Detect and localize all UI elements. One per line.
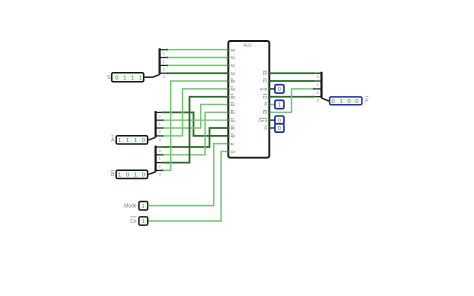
svg-text:2: 2 <box>317 91 319 95</box>
svg-text:0: 0 <box>163 52 165 56</box>
svg-text:S3: S3 <box>231 72 236 76</box>
svg-text:1: 1 <box>126 138 129 144</box>
svg-text:B2: B2 <box>231 95 236 99</box>
svg-text:2: 2 <box>159 165 161 169</box>
svg-text:0: 0 <box>278 126 281 132</box>
svg-text:A=B: A=B <box>260 88 268 92</box>
svg-text:S0: S0 <box>231 48 236 52</box>
svg-text:F: F <box>365 99 368 105</box>
svg-text:1: 1 <box>278 103 281 109</box>
svg-text:1: 1 <box>139 75 142 81</box>
svg-text:2: 2 <box>163 67 165 71</box>
svg-text:1: 1 <box>134 172 137 178</box>
svg-text:1: 1 <box>118 138 121 144</box>
svg-text:B0: B0 <box>231 127 236 131</box>
svg-text:A1: A1 <box>231 119 236 123</box>
svg-text:G: G <box>264 127 267 131</box>
svg-text:1: 1 <box>339 99 342 105</box>
svg-text:Mode: Mode <box>124 204 137 210</box>
svg-text:1: 1 <box>142 219 145 225</box>
svg-text:3: 3 <box>163 75 165 79</box>
svg-text:1: 1 <box>317 83 319 87</box>
svg-text:3: 3 <box>159 138 161 142</box>
svg-text:0: 0 <box>278 87 281 93</box>
svg-text:0: 0 <box>159 149 161 153</box>
svg-text:3: 3 <box>159 172 161 176</box>
svg-text:F0: F0 <box>263 72 267 76</box>
svg-text:F1: F1 <box>263 80 267 84</box>
svg-text:1: 1 <box>131 75 134 81</box>
svg-text:Cn+4: Cn+4 <box>258 119 267 123</box>
svg-text:S1: S1 <box>231 56 236 60</box>
svg-text:A2: A2 <box>231 103 236 107</box>
svg-text:Cn: Cn <box>231 150 236 154</box>
svg-text:B1: B1 <box>231 111 236 115</box>
svg-text:F2: F2 <box>263 111 267 115</box>
svg-text:B3: B3 <box>231 80 236 84</box>
svg-text:1: 1 <box>134 138 137 144</box>
svg-text:1: 1 <box>163 59 165 63</box>
svg-text:1: 1 <box>123 75 126 81</box>
svg-text:A0: A0 <box>231 135 236 139</box>
svg-text:F3: F3 <box>263 95 267 99</box>
svg-text:1: 1 <box>142 204 145 210</box>
svg-text:0: 0 <box>159 114 161 118</box>
svg-text:A3: A3 <box>231 88 236 92</box>
svg-text:S2: S2 <box>231 64 236 68</box>
svg-text:2: 2 <box>159 130 161 134</box>
svg-text:M: M <box>231 142 234 146</box>
svg-text:1: 1 <box>159 122 161 126</box>
svg-text:3: 3 <box>317 99 319 103</box>
svg-text:Cn: Cn <box>130 219 137 225</box>
svg-text:1: 1 <box>118 172 121 178</box>
svg-text:0: 0 <box>317 75 319 79</box>
svg-text:1: 1 <box>159 157 161 161</box>
svg-text:ALU: ALU <box>243 42 251 47</box>
